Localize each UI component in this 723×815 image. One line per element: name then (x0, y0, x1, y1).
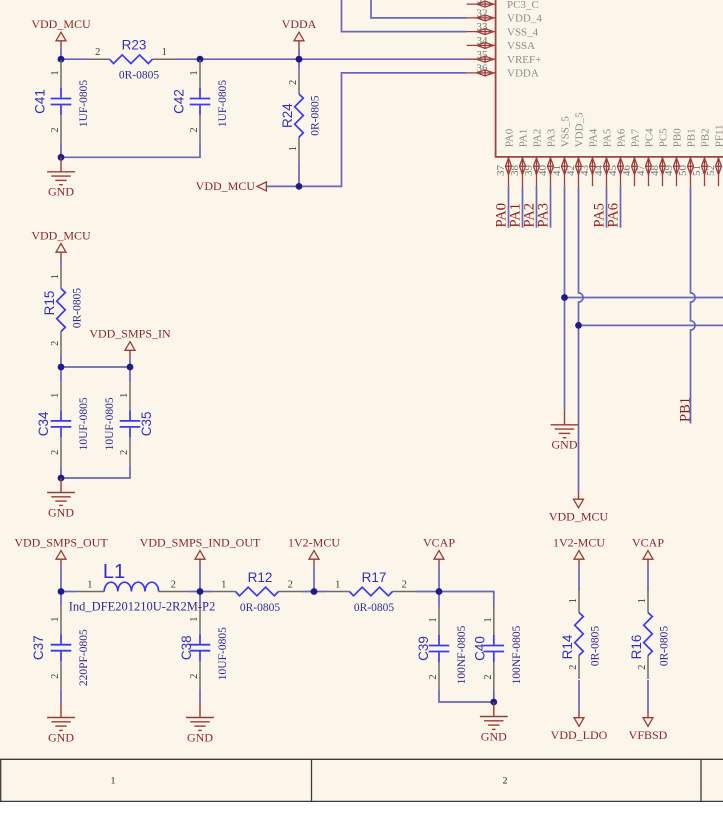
svg-text:PB1: PB1 (686, 128, 698, 147)
svg-text:PA1: PA1 (518, 129, 530, 148)
wire VDD_SMPS_IND_OUT stub (199, 565, 201, 591)
svg-text:48: 48 (649, 165, 661, 177)
svg-text:0R-0805: 0R-0805 (240, 602, 281, 614)
wire PA1 stub (522, 186, 524, 228)
svg-text:39: 39 (523, 165, 535, 177)
svg-text:VSS_5: VSS_5 (560, 116, 572, 148)
svg-text:38: 38 (509, 165, 521, 177)
svg-text:10UF-0805: 10UF-0805 (104, 397, 116, 450)
pin 31 PC3_C (467, 0, 539, 11)
svg-text:100NF-0805: 100NF-0805 (511, 625, 523, 684)
svg-text:PA7: PA7 (630, 128, 642, 147)
wire to pin 32 VDD_4 (371, 0, 467, 18)
svg-text:1: 1 (568, 598, 579, 603)
wire C37 top (60, 592, 62, 607)
capacitor C37 (31, 606, 90, 689)
junction (200,591.5) (197, 588, 204, 595)
svg-text:2: 2 (483, 674, 494, 679)
pin 46 PA7 (621, 128, 642, 186)
svg-text:GND: GND (481, 729, 507, 743)
junction (61,157.3) (58, 154, 65, 161)
power symbol VDD_MCU (up arrow) (31, 229, 91, 259)
power symbol VDDA (up arrow) (282, 17, 317, 47)
svg-text:R16: R16 (629, 635, 644, 660)
svg-text:R12: R12 (248, 570, 273, 585)
svg-text:1V2-MCU: 1V2-MCU (553, 536, 605, 550)
wire VCAP to R16 (647, 565, 649, 590)
wire R16 to VFBSD (647, 680, 649, 712)
power symbol VDD_SMPS_OUT (up arrow) (14, 536, 108, 566)
svg-text:VCAP: VCAP (632, 536, 664, 550)
svg-text:1: 1 (221, 579, 226, 590)
svg-text:1: 1 (50, 393, 61, 398)
svg-text:2: 2 (50, 127, 61, 132)
svg-text:VDD_SMPS_IND_OUT: VDD_SMPS_IND_OUT (140, 536, 261, 550)
ground symbol at (493.8,702) (480, 702, 508, 743)
pin 40 PA3 (537, 128, 558, 186)
power symbol 1V2-MCU (up arrow) (553, 536, 605, 566)
svg-text:2: 2 (428, 674, 439, 679)
svg-text:PC3_C: PC3_C (507, 0, 539, 11)
svg-text:2: 2 (50, 341, 61, 346)
svg-text:1: 1 (428, 617, 439, 622)
svg-text:49: 49 (663, 165, 675, 177)
svg-text:C42: C42 (171, 89, 186, 114)
pin 48 PC5 (649, 128, 670, 186)
power symbol VCAP (up arrow) (423, 536, 455, 566)
svg-text:R15: R15 (42, 291, 57, 316)
svg-text:L1: L1 (103, 561, 125, 583)
wire R12 to R17 node (302, 591, 326, 593)
svg-text:VCAP: VCAP (423, 536, 455, 550)
svg-text:10UF-0805: 10UF-0805 (78, 397, 90, 450)
pin 34 VSSA (467, 35, 536, 52)
wire C39 top (438, 592, 440, 608)
pin 51 PB2 (691, 128, 712, 186)
sheet border (0, 759, 723, 801)
ground symbol at (61,478) (47, 478, 75, 519)
capacitor C39 (416, 607, 468, 690)
svg-text:VDD_MCU: VDD_MCU (549, 510, 609, 524)
svg-text:GND: GND (48, 185, 74, 199)
pin 44 PA5 (593, 128, 614, 186)
svg-text:0R-0805: 0R-0805 (310, 95, 322, 136)
svg-text:51: 51 (691, 165, 703, 176)
svg-text:VDDA: VDDA (507, 68, 539, 80)
junction (564.5,297.5) (561, 294, 568, 301)
capacitor C41 (32, 60, 90, 143)
pin 45 PA6 (607, 128, 628, 186)
svg-text:PA6: PA6 (606, 203, 622, 227)
svg-text:VFBSD: VFBSD (629, 728, 668, 742)
op-amp U1 MCU body (496, 0, 723, 157)
wire VSS_5 to GND (564, 186, 566, 410)
wire PA2 stub (536, 186, 538, 228)
svg-text:1UF-0805: 1UF-0805 (78, 80, 90, 128)
wire R17 to VCAP node (416, 591, 439, 593)
wire C41 bottom to C42 bottom (61, 143, 200, 157)
svg-text:42: 42 (565, 165, 577, 176)
svg-text:100NF-0805: 100NF-0805 (456, 625, 468, 684)
svg-text:0R-0805: 0R-0805 (590, 626, 602, 667)
svg-text:0R-0805: 0R-0805 (354, 602, 395, 614)
wire node VDD_SMPS_OUT to L1 (61, 591, 76, 593)
wire PB1 (hops over both rails) (691, 186, 696, 423)
svg-text:10UF-0805: 10UF-0805 (217, 627, 229, 680)
svg-text:2: 2 (402, 579, 407, 590)
resistor R23 (86, 38, 176, 82)
junction (61,59.2) (58, 56, 65, 63)
junction (299,59.2) (296, 56, 303, 63)
svg-text:37: 37 (495, 164, 507, 176)
svg-text:47: 47 (635, 165, 647, 177)
global label VDD_MCU (196, 179, 267, 193)
ground symbol at (61,703) (47, 703, 75, 744)
power symbol VDD_MCU (up arrow) (31, 17, 91, 47)
wire VDD_SMPS_OUT stub (60, 565, 62, 591)
svg-text:2: 2 (288, 579, 293, 590)
wire C38 bottom to GND (199, 689, 201, 703)
pin 50 PB1 (677, 128, 698, 186)
resistor R16 (629, 589, 671, 679)
ground symbol at (200,703) (186, 703, 214, 744)
pin 52 PF11 (705, 124, 723, 186)
svg-text:C37: C37 (31, 635, 46, 660)
wire C39 bottom to C40 bottom/GND (439, 690, 494, 702)
wire R15/C34 node rail (61, 366, 130, 368)
wire C38 top (199, 592, 201, 607)
pin 43 PA4 (579, 128, 600, 186)
svg-text:1: 1 (637, 598, 648, 603)
pin 42 VDD_5 (565, 112, 586, 186)
pin 32 VDD_4 (467, 8, 543, 25)
wire 1V2-MCU stub (313, 565, 315, 591)
svg-text:Ind_DFE201210U-2R2M-P2: Ind_DFE201210U-2R2M-P2 (69, 600, 216, 614)
svg-text:2: 2 (119, 450, 130, 455)
svg-text:41: 41 (551, 165, 563, 176)
svg-text:VREF+: VREF+ (507, 54, 541, 66)
svg-text:GND: GND (187, 730, 213, 744)
wire VDD_SMPS_IN stub (129, 356, 131, 367)
svg-text:45: 45 (607, 165, 619, 177)
svg-text:2: 2 (503, 777, 508, 787)
wire L1 to R12 node (188, 591, 212, 593)
junction (61,367) (58, 364, 65, 371)
power symbol VDD_SMPS_IND_OUT (up arrow) (140, 536, 261, 566)
wire VDD_5 rail to right edge (579, 324, 723, 326)
svg-text:2: 2 (637, 665, 648, 670)
junction (578.5,325.4) (575, 322, 582, 329)
junction (314,591.5) (311, 588, 318, 595)
svg-text:1: 1 (50, 274, 61, 279)
svg-text:1UF-0805: 1UF-0805 (217, 80, 229, 128)
wire 1V2-MCU to R14 (578, 565, 580, 590)
wire VDD_MCU to R23 (61, 58, 86, 60)
wire R24 bottom to VDD_MCU label (298, 161, 300, 187)
svg-text:1: 1 (162, 47, 167, 58)
wire PA5 stub (606, 186, 608, 228)
pin 41 VSS_5 (551, 116, 572, 187)
wire R23 to C42/VDDA/pin 35 VREF+ (176, 58, 467, 60)
svg-text:43: 43 (579, 165, 591, 177)
svg-text:VDD_MCU: VDD_MCU (31, 17, 91, 31)
svg-text:40: 40 (537, 165, 549, 177)
junction (493.8,702) (490, 699, 497, 706)
svg-text:VDD_MCU: VDD_MCU (31, 229, 91, 243)
svg-text:PA0: PA0 (504, 128, 516, 147)
power symbol VFBSD (down arrow) (629, 712, 668, 742)
svg-text:PC5: PC5 (658, 128, 670, 147)
svg-text:VDDA: VDDA (282, 17, 317, 31)
junction (61,591.5) (58, 588, 65, 595)
wire VDD_5 to VDD_MCU (hops over VSS_5 rail) (579, 186, 584, 493)
svg-text:2: 2 (288, 80, 299, 85)
svg-text:PA4: PA4 (588, 128, 600, 147)
capacitor C38 (179, 606, 229, 689)
resistor R15 (42, 265, 84, 355)
svg-text:R14: R14 (560, 634, 575, 659)
svg-text:2: 2 (189, 674, 200, 679)
svg-text:50: 50 (677, 165, 689, 177)
resistor R17 (326, 570, 416, 614)
svg-text:1: 1 (87, 579, 92, 590)
wire VDD_MCU to R15 (60, 258, 62, 265)
svg-text:PB2: PB2 (700, 128, 712, 147)
wire C37 bottom to GND (60, 689, 62, 703)
capacitor C35 (104, 382, 154, 465)
svg-text:1: 1 (335, 579, 340, 590)
pin 36 VDDA (467, 63, 539, 80)
wire R24 top (298, 59, 300, 70)
power symbol VDD_MCU (down arrow) (549, 493, 609, 523)
junction (61,478) (58, 475, 65, 482)
wire VDD_MCU power stub (60, 47, 62, 59)
svg-text:C40: C40 (473, 636, 488, 661)
wire PA3 stub (550, 186, 552, 228)
svg-text:2: 2 (50, 674, 61, 679)
power symbol 1V2-MCU (up arrow) (288, 536, 340, 566)
svg-text:VDD_4: VDD_4 (507, 13, 542, 25)
junction (299,186.4) (296, 183, 303, 190)
junction (439,591.5) (436, 588, 443, 595)
wire PA0 stub (508, 186, 510, 228)
svg-text:1: 1 (111, 777, 116, 787)
svg-text:GND: GND (552, 438, 578, 452)
svg-text:34: 34 (477, 35, 489, 47)
wire VCAP node to C40 (439, 592, 494, 608)
capacitor C40 (473, 607, 523, 690)
svg-text:1: 1 (288, 146, 299, 151)
svg-text:PA5: PA5 (602, 128, 614, 147)
wire to pin 33 VSS_4 (342, 0, 467, 32)
wire C34 bottom to C35 bottom (61, 465, 130, 478)
pin 37 PA0 (495, 128, 516, 186)
svg-text:VDD_5: VDD_5 (574, 112, 586, 147)
power symbol VDD_LDO (down arrow) (551, 712, 608, 742)
svg-text:C35: C35 (139, 412, 154, 437)
svg-text:PA3: PA3 (546, 128, 558, 147)
svg-text:VDD_MCU: VDD_MCU (196, 179, 256, 193)
pin 38 PA1 (509, 129, 530, 186)
svg-text:44: 44 (593, 165, 605, 177)
svg-text:1: 1 (119, 393, 130, 398)
wire VDDA power stub (298, 47, 300, 59)
svg-text:2: 2 (50, 450, 61, 455)
svg-text:PB1: PB1 (678, 397, 694, 422)
svg-text:31: 31 (477, 0, 488, 6)
resistor R24 (280, 71, 322, 161)
capacitor C34 (36, 382, 90, 465)
svg-text:C38: C38 (179, 635, 194, 660)
wire C35 top (129, 367, 131, 382)
svg-text:1V2-MCU: 1V2-MCU (288, 536, 340, 550)
svg-text:PA2: PA2 (532, 129, 544, 148)
resistor R12 (212, 570, 302, 614)
svg-text:VSSA: VSSA (507, 40, 535, 52)
svg-text:52: 52 (705, 165, 717, 176)
svg-text:2: 2 (568, 665, 579, 670)
pin 49 PB0 (663, 128, 684, 186)
svg-text:VDD_SMPS_IN: VDD_SMPS_IN (89, 327, 171, 341)
svg-text:C34: C34 (36, 411, 51, 436)
inductor L1 (69, 561, 216, 614)
svg-text:1: 1 (189, 617, 200, 622)
wire C34 top (60, 367, 62, 382)
svg-text:C41: C41 (32, 89, 47, 114)
svg-text:0R-0805: 0R-0805 (659, 626, 671, 667)
svg-text:0R-0805: 0R-0805 (72, 288, 84, 329)
svg-text:PB0: PB0 (672, 128, 684, 147)
pin 39 PA2 (523, 129, 544, 186)
svg-text:GND: GND (48, 505, 74, 519)
svg-text:1: 1 (189, 70, 200, 75)
svg-text:33: 33 (477, 21, 489, 33)
svg-text:2: 2 (171, 579, 176, 590)
svg-text:1: 1 (50, 617, 61, 622)
junction (130,367) (127, 364, 134, 371)
wire VCAP stub (438, 565, 440, 591)
wire R14 to VDD_LDO (578, 680, 580, 712)
svg-text:32: 32 (477, 8, 488, 20)
pin 33 VSS_4 (467, 21, 539, 38)
svg-text:0R-0805: 0R-0805 (119, 70, 160, 82)
wire VSS_5 rail to right edge (565, 297, 723, 299)
svg-text:VDD_LDO: VDD_LDO (551, 728, 608, 742)
svg-text:1: 1 (483, 617, 494, 622)
svg-text:PA6: PA6 (616, 128, 628, 147)
svg-text:VDD_SMPS_OUT: VDD_SMPS_OUT (14, 536, 108, 550)
power symbol VDD_SMPS_IN (up arrow) (89, 327, 171, 357)
svg-text:R23: R23 (122, 38, 147, 53)
svg-text:2: 2 (189, 127, 200, 132)
svg-text:PA3: PA3 (536, 203, 552, 227)
junction (200,59.2) (197, 56, 204, 63)
svg-text:R17: R17 (362, 570, 387, 585)
pin 47 PC4 (635, 128, 656, 186)
svg-text:35: 35 (477, 49, 489, 61)
svg-text:36: 36 (477, 63, 489, 75)
wire VDD_MCU label to pin 36 VDDA (267, 73, 467, 186)
svg-text:R24: R24 (280, 103, 295, 128)
svg-text:VSS_4: VSS_4 (507, 26, 539, 38)
capacitor C42 (171, 60, 229, 143)
power symbol VCAP (up arrow) (632, 536, 664, 566)
wire R15 bottom (60, 355, 62, 367)
svg-text:2: 2 (95, 47, 100, 58)
resistor R14 (560, 589, 602, 679)
svg-text:46: 46 (621, 165, 633, 177)
ground symbol at (61,157.3) (47, 157, 75, 198)
svg-text:PC4: PC4 (644, 128, 656, 147)
svg-text:PF11: PF11 (714, 124, 723, 147)
pin 35 VREF+ (467, 49, 542, 66)
svg-text:GND: GND (48, 730, 74, 744)
ground symbol at (564.5,410.3) (551, 410, 579, 451)
wire PA6 stub (620, 186, 622, 228)
svg-text:1: 1 (50, 70, 61, 75)
svg-text:220PF-0805: 220PF-0805 (78, 629, 90, 686)
svg-text:C39: C39 (416, 636, 431, 661)
